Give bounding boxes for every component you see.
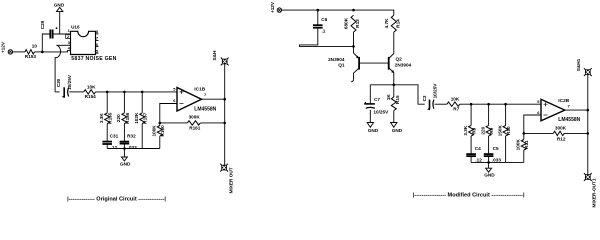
svg-text:C3: C3	[422, 95, 427, 101]
svg-text:C6: C6	[321, 17, 327, 22]
svg-text:3.3K: 3.3K	[99, 113, 104, 124]
svg-text:R153: R153	[25, 54, 37, 59]
svg-text:GND: GND	[120, 162, 131, 167]
svg-text:R156: R156	[125, 112, 130, 124]
wire	[42, 34, 50, 52]
svg-text:R11: R11	[524, 140, 529, 149]
junction	[223, 98, 226, 101]
wire	[524, 115, 541, 133]
svg-text:Q1: Q1	[338, 63, 345, 68]
junction	[587, 132, 590, 135]
svg-text:C4: C4	[475, 146, 481, 151]
resistor R14 4.7K	[384, 15, 400, 53]
svg-text:300K: 300K	[189, 114, 201, 119]
svg-text:.1: .1	[322, 29, 326, 34]
svg-text:3.3K: 3.3K	[463, 125, 468, 136]
junction	[352, 9, 355, 12]
svg-text:10K: 10K	[451, 96, 460, 101]
capacitor C3 10/25V	[422, 83, 438, 111]
transistor Q1 2N3904	[328, 46, 359, 81]
svg-text:220: 220	[481, 126, 486, 134]
capacitor C4 .12	[466, 136, 482, 162]
caption Original Circuit	[67, 197, 166, 203]
svg-text:2N3904: 2N3904	[395, 62, 412, 67]
capacitor R32 .033	[120, 124, 138, 150]
svg-text:MIXER OUT: MIXER OUT	[228, 167, 233, 193]
wire	[565, 109, 588, 111]
svg-text:680K: 680K	[344, 17, 349, 29]
svg-text:GND: GND	[392, 128, 403, 133]
svg-text:6: 6	[96, 42, 99, 47]
capacitor C7 10/25V	[364, 85, 389, 123]
wire bottom bus	[471, 161, 524, 163]
wire bus	[96, 91, 178, 93]
ground GND (C7)	[367, 123, 379, 133]
junction	[487, 103, 490, 106]
ground GND (left network)	[120, 147, 131, 166]
junction	[504, 103, 507, 106]
svg-text:R160: R160	[160, 125, 165, 137]
resistor R15 1K	[386, 85, 400, 123]
svg-text:.12: .12	[111, 145, 118, 150]
wire rail	[224, 62, 226, 168]
junction	[523, 132, 526, 135]
wire	[53, 33, 71, 35]
junction	[141, 91, 144, 94]
svg-text:GND: GND	[54, 2, 65, 7]
svg-text:Q2: Q2	[396, 56, 403, 61]
svg-text:R12: R12	[557, 136, 566, 141]
junction	[317, 9, 320, 12]
svg-text:MIXER-OUT1: MIXER-OUT1	[591, 178, 596, 207]
svg-text:6: 6	[173, 98, 176, 103]
wire	[160, 104, 177, 123]
wire with hop	[55, 45, 70, 92]
svg-text:LM4558N: LM4558N	[194, 107, 216, 113]
svg-text:R157: R157	[143, 112, 148, 124]
svg-text:C29: C29	[40, 20, 45, 29]
power terminal +12V (right)	[270, 1, 282, 13]
resistor R160 100K	[152, 123, 166, 149]
node MIXER-OUT1	[584, 173, 597, 207]
resistor R155 3.3K	[99, 92, 113, 124]
power terminal +12V (left)	[1, 41, 13, 54]
resistor R157 102K	[134, 92, 148, 149]
wire	[524, 132, 588, 134]
svg-text:R32: R32	[127, 133, 136, 138]
svg-text:1K: 1K	[386, 94, 391, 101]
svg-text:S&H: S&H	[212, 50, 217, 61]
svg-text:10K: 10K	[87, 84, 96, 89]
svg-text:R13: R13	[355, 19, 360, 28]
node S&H1	[576, 58, 592, 76]
svg-text:5: 5	[96, 48, 99, 53]
svg-text:8: 8	[96, 29, 99, 34]
svg-text:220: 220	[116, 114, 121, 122]
resistor R12 300K	[553, 126, 566, 142]
resistor R13 680K	[344, 15, 360, 46]
IC U16 5837 NOISE GEN	[66, 25, 117, 62]
svg-text:R7: R7	[453, 106, 459, 111]
wire top	[282, 10, 394, 15]
svg-text:5: 5	[173, 86, 176, 91]
svg-text:.12: .12	[475, 157, 482, 162]
junction	[352, 45, 355, 48]
svg-text:C31: C31	[110, 133, 119, 138]
svg-text:|----------------- Modified Ci: |----------------- Modified Circuit ----…	[413, 193, 525, 199]
wire	[160, 122, 225, 124]
resistor R11 100K	[516, 133, 530, 162]
svg-text:10/25V: 10/25V	[432, 83, 437, 99]
svg-text:R154: R154	[85, 94, 97, 99]
wire	[202, 98, 225, 100]
svg-text:C30: C30	[56, 78, 61, 87]
svg-text:100K: 100K	[152, 125, 157, 137]
wire	[370, 85, 424, 104]
junction	[123, 91, 126, 94]
svg-text:GND: GND	[368, 128, 379, 133]
capacitor C5 .033	[484, 136, 502, 162]
junction	[393, 84, 396, 87]
svg-text:R8: R8	[472, 127, 477, 133]
resistor R161 300K	[187, 114, 200, 130]
svg-text:R161: R161	[189, 125, 201, 130]
resistor R8 3.3K	[463, 104, 477, 136]
svg-text:C7: C7	[374, 97, 380, 102]
capacitor C30 10/25V	[56, 74, 72, 98]
svg-text:R155: R155	[108, 112, 113, 124]
svg-text:IC2B: IC2B	[558, 98, 569, 104]
junction	[106, 91, 109, 94]
junction	[470, 103, 473, 106]
node A junction	[41, 51, 44, 54]
svg-text:U16: U16	[71, 25, 80, 30]
svg-text:10: 10	[32, 43, 38, 48]
wire	[34, 51, 42, 53]
svg-text:R9: R9	[489, 127, 494, 133]
wire	[42, 50, 70, 52]
resistor R9 220	[481, 104, 494, 136]
svg-text:LM4558N: LM4558N	[558, 117, 580, 123]
ground GND (R15)	[391, 123, 403, 133]
svg-text:.033: .033	[128, 145, 138, 150]
resistor R153 10	[25, 43, 38, 59]
resistor R156 220	[116, 92, 130, 124]
svg-text:R15: R15	[395, 95, 400, 104]
svg-text:S&H1: S&H1	[576, 58, 581, 71]
svg-text:7: 7	[568, 103, 571, 108]
transistor Q2 2N3904	[389, 54, 412, 85]
svg-text:10/25V: 10/25V	[67, 74, 72, 90]
caption Modified Circuit	[413, 193, 525, 199]
op-amp IC1B LM4558N	[173, 86, 216, 112]
op-amp IC2B LM4558N	[537, 98, 580, 123]
wire bottom bus	[107, 148, 160, 150]
junction	[587, 109, 590, 112]
capacitor C6 .1	[299, 10, 353, 46]
node S&H	[212, 50, 229, 65]
svg-text:2N3904: 2N3904	[328, 57, 345, 62]
svg-text:7: 7	[96, 36, 99, 41]
svg-text:102K: 102K	[134, 112, 139, 124]
svg-text:+12V: +12V	[270, 1, 275, 13]
svg-text:+12V: +12V	[1, 41, 6, 53]
capacitor C31 .12	[102, 124, 118, 150]
wire	[435, 103, 447, 105]
resistor R10 150K	[497, 104, 511, 162]
resistor R154 10K	[84, 84, 96, 99]
capacitor C29	[40, 20, 52, 38]
svg-text:.033: .033	[492, 157, 502, 162]
svg-text:100K: 100K	[516, 138, 521, 150]
junction	[56, 27, 58, 29]
wire rail	[587, 72, 589, 177]
ground GND (right network)	[484, 161, 495, 178]
ground GND top	[54, 2, 65, 34]
svg-text:6: 6	[537, 110, 540, 115]
svg-text:IC1B: IC1B	[194, 86, 205, 92]
svg-text:7: 7	[204, 92, 207, 97]
svg-text:5837 NOISE GEN: 5837 NOISE GEN	[71, 56, 116, 62]
svg-text:150K: 150K	[497, 124, 502, 136]
svg-text:|-------------- Original Circu: |-------------- Original Circuit -------…	[67, 197, 166, 203]
wire bus	[460, 103, 541, 105]
svg-text:300K: 300K	[555, 126, 567, 131]
junction	[223, 122, 226, 125]
wire base	[359, 62, 389, 64]
junction	[159, 122, 162, 125]
wire	[13, 51, 25, 53]
svg-text:C5: C5	[493, 146, 499, 151]
svg-text:GND: GND	[484, 173, 495, 178]
svg-text:R10: R10	[506, 126, 511, 135]
svg-text:5: 5	[537, 99, 540, 104]
wire	[69, 91, 84, 93]
resistor R7 10K	[447, 96, 460, 111]
node MIXER OUT	[220, 164, 233, 194]
svg-text:R14: R14	[395, 19, 400, 28]
svg-text:10/25V: 10/25V	[373, 110, 389, 115]
svg-text:4.7K: 4.7K	[384, 18, 389, 29]
